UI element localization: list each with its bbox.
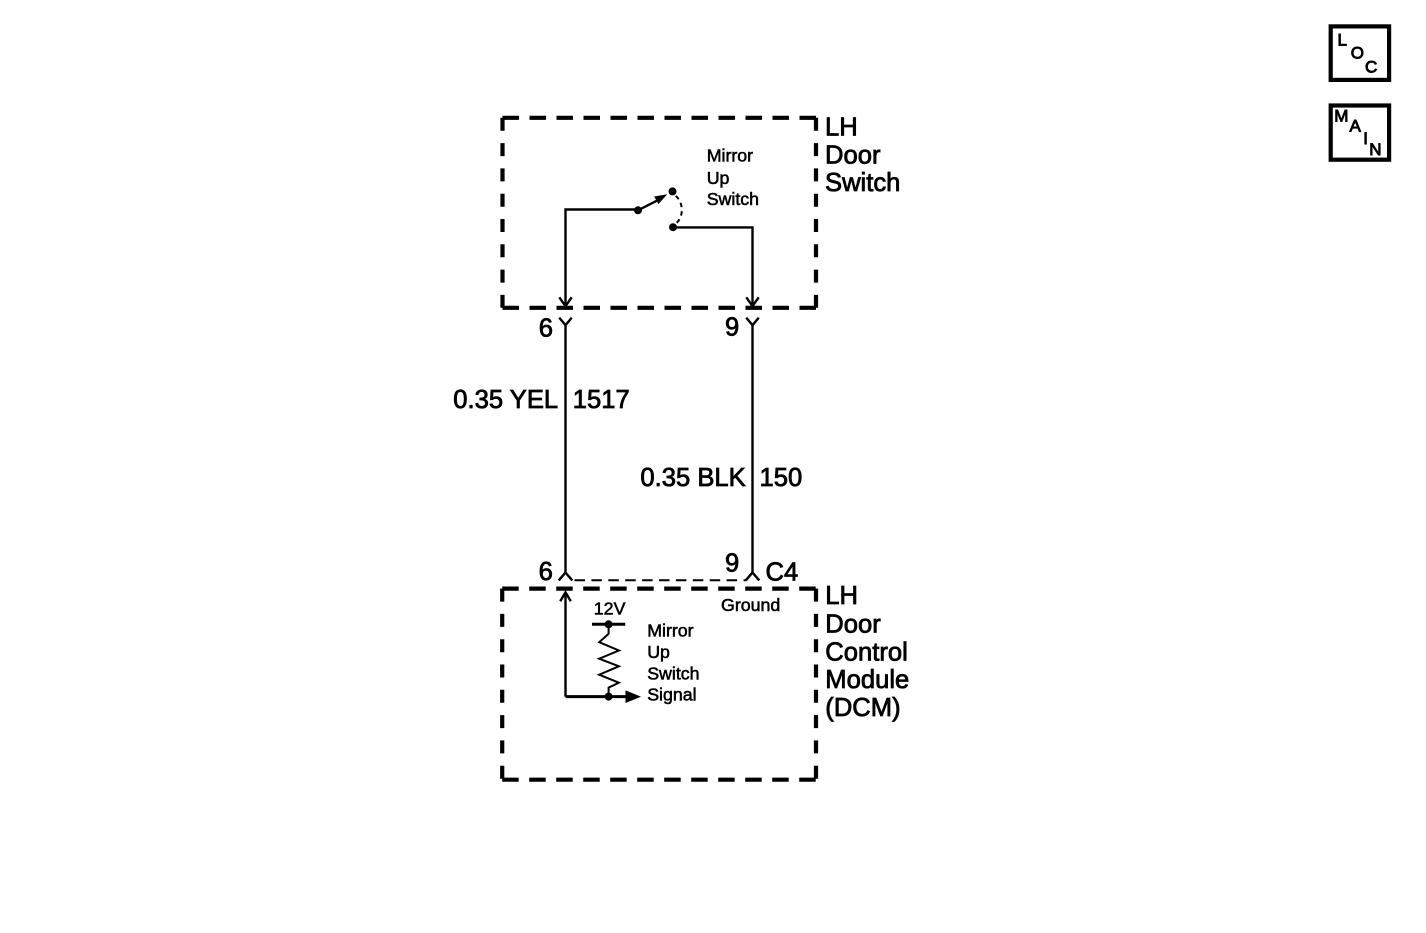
svg-text:Mirror: Mirror — [707, 146, 753, 166]
svg-text:I: I — [1363, 129, 1368, 148]
svg-text:Up: Up — [647, 642, 670, 662]
svg-text:Switch: Switch — [707, 189, 759, 209]
svg-text:Door: Door — [825, 611, 881, 639]
svg-text:0.35 BLK: 0.35 BLK — [640, 464, 745, 492]
svg-text:(DCM): (DCM) — [825, 694, 900, 722]
svg-text:Up: Up — [707, 168, 730, 188]
svg-text:A: A — [1350, 117, 1362, 136]
svg-text:O: O — [1351, 44, 1364, 63]
svg-text:LH: LH — [825, 114, 858, 142]
svg-text:150: 150 — [760, 464, 803, 492]
svg-text:C4: C4 — [766, 558, 799, 586]
svg-text:L: L — [1338, 30, 1347, 49]
svg-text:C: C — [1365, 57, 1377, 76]
svg-text:9: 9 — [725, 314, 739, 342]
svg-text:0.35 YEL: 0.35 YEL — [453, 386, 558, 414]
svg-text:6: 6 — [539, 315, 553, 343]
svg-text:1517: 1517 — [573, 386, 630, 414]
svg-text:9: 9 — [725, 550, 739, 578]
svg-text:N: N — [1369, 140, 1381, 159]
svg-text:6: 6 — [539, 558, 553, 586]
svg-text:Switch: Switch — [647, 663, 699, 683]
svg-text:12V: 12V — [594, 598, 626, 618]
svg-text:Module: Module — [825, 666, 909, 694]
svg-text:Control: Control — [825, 638, 908, 666]
svg-text:Switch: Switch — [825, 169, 900, 197]
svg-text:LH: LH — [825, 582, 858, 610]
svg-text:Ground: Ground — [721, 595, 780, 615]
svg-text:Mirror: Mirror — [647, 620, 693, 640]
svg-text:Door: Door — [825, 142, 881, 170]
svg-text:M: M — [1334, 106, 1348, 125]
svg-text:Signal: Signal — [647, 685, 696, 705]
